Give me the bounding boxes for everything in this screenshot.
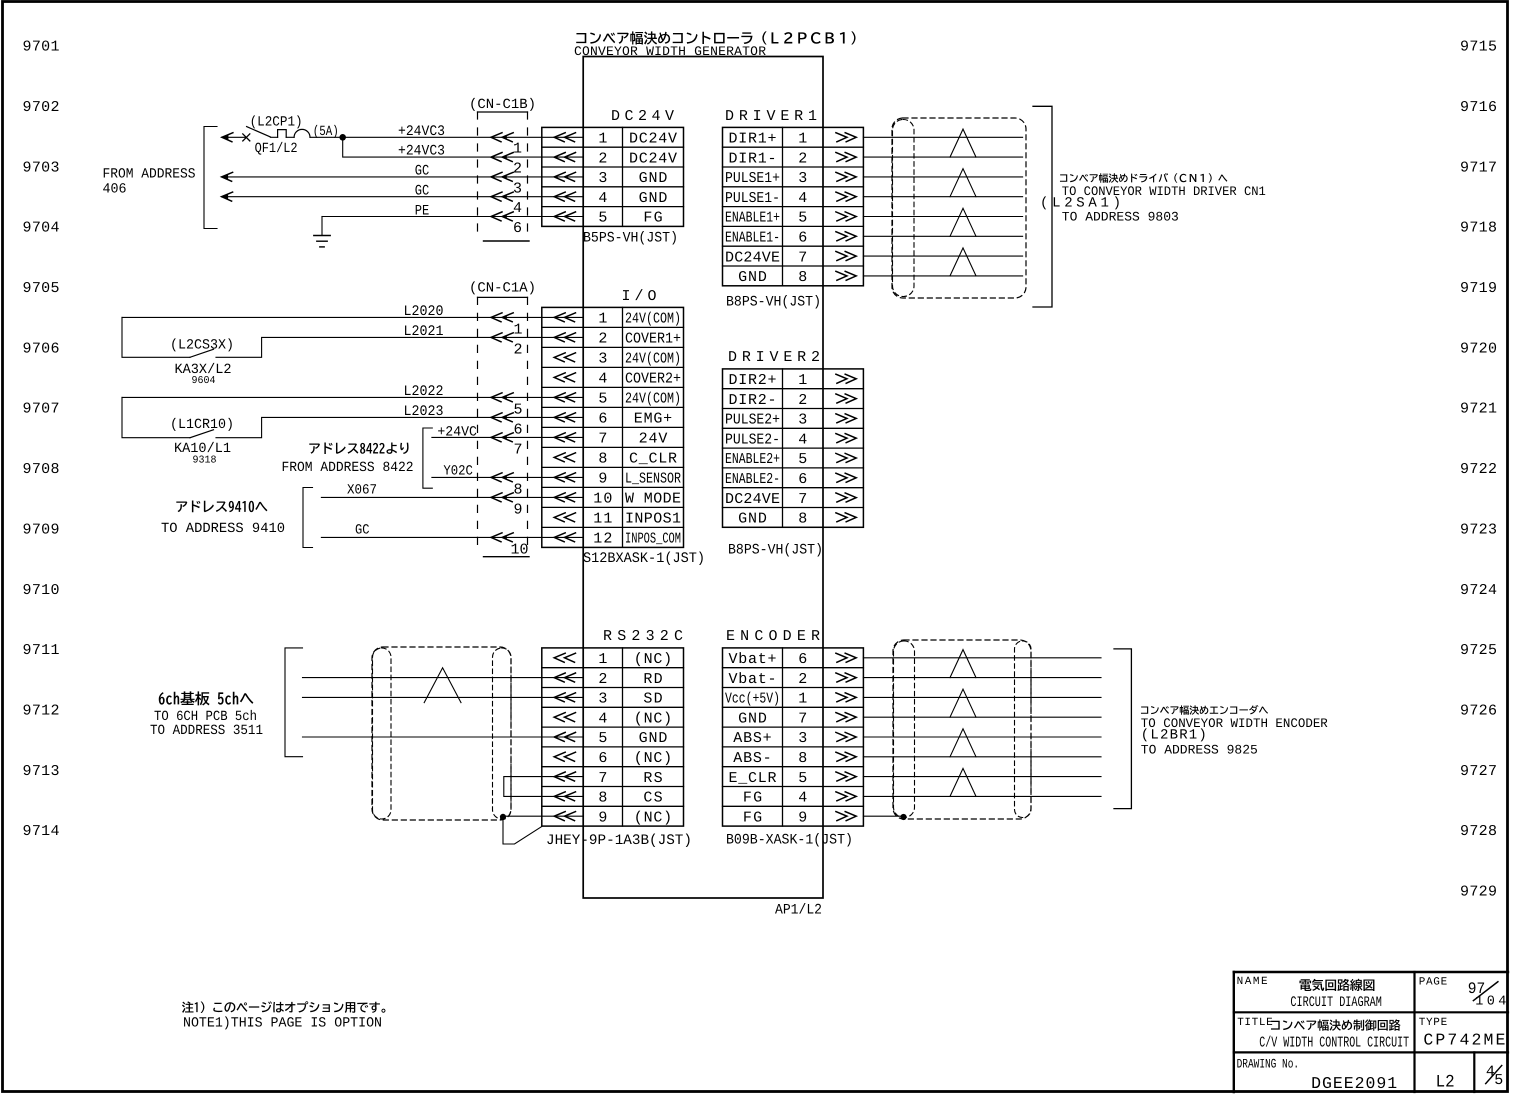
svg-text:GND: GND — [738, 269, 767, 286]
svg-text:GC: GC — [415, 163, 430, 179]
svg-text:7: 7 — [598, 770, 607, 787]
svg-text:Vbat-: Vbat- — [729, 671, 777, 688]
svg-text:ENABLE1+: ENABLE1+ — [725, 210, 780, 227]
svg-text:DC24VE: DC24VE — [725, 249, 780, 266]
svg-text:DIR2+: DIR2+ — [729, 372, 777, 389]
svg-text:2: 2 — [798, 392, 807, 409]
svg-text:L2023: L2023 — [404, 404, 444, 420]
svg-text:ABS-: ABS- — [733, 750, 771, 767]
svg-text:3: 3 — [798, 412, 807, 429]
svg-text:9705: 9705 — [23, 280, 60, 297]
svg-text:24V(COM): 24V(COM) — [625, 391, 681, 408]
svg-text:CIRCUIT DIAGRAM: CIRCUIT DIAGRAM — [1290, 995, 1382, 1011]
svg-text:AP1/L2: AP1/L2 — [775, 903, 822, 919]
svg-text:9: 9 — [598, 809, 607, 826]
svg-text:24V(COM): 24V(COM) — [625, 311, 681, 328]
svg-text:B8PS-VH(JST): B8PS-VH(JST) — [728, 543, 823, 559]
svg-text:PE: PE — [415, 203, 430, 219]
svg-text:9707: 9707 — [23, 401, 60, 418]
svg-text:TYPE: TYPE — [1419, 1017, 1448, 1029]
svg-text:3: 3 — [798, 170, 807, 187]
svg-text:9715: 9715 — [1460, 39, 1497, 56]
svg-text:5: 5 — [598, 391, 607, 408]
svg-text:9719: 9719 — [1460, 280, 1497, 297]
svg-text:2: 2 — [598, 331, 607, 348]
svg-text:9713: 9713 — [23, 763, 60, 780]
svg-text:406: 406 — [103, 182, 127, 198]
svg-text:9709: 9709 — [23, 521, 60, 538]
svg-text:JHEY-9P-1A3B(JST): JHEY-9P-1A3B(JST) — [546, 833, 692, 849]
svg-text:L2022: L2022 — [404, 384, 444, 400]
svg-text:4: 4 — [798, 431, 807, 448]
svg-text:7: 7 — [798, 491, 807, 508]
svg-text:+24VC3: +24VC3 — [398, 144, 445, 160]
svg-text:B5PS-VH(JST): B5PS-VH(JST) — [583, 231, 678, 247]
svg-text:FROM ADDRESS: FROM ADDRESS — [103, 166, 196, 182]
svg-text:3: 3 — [513, 180, 522, 197]
svg-text:5: 5 — [513, 401, 522, 418]
svg-text:L2021: L2021 — [404, 324, 444, 340]
svg-text:9703: 9703 — [23, 159, 60, 176]
svg-text:(CN-C1A): (CN-C1A) — [469, 281, 536, 297]
svg-text:ABS+: ABS+ — [733, 730, 771, 747]
svg-text:INPOS_COM: INPOS_COM — [625, 531, 681, 548]
svg-text:2: 2 — [598, 671, 607, 688]
svg-text:L2020: L2020 — [404, 304, 444, 320]
svg-text:CP742ME: CP742ME — [1423, 1031, 1505, 1050]
svg-text:CS: CS — [643, 790, 662, 807]
svg-text:2: 2 — [598, 150, 607, 167]
svg-text:PULSE2-: PULSE2- — [725, 431, 780, 448]
svg-text:9710: 9710 — [23, 582, 60, 599]
svg-text:PULSE2+: PULSE2+ — [725, 412, 780, 429]
svg-text:ENABLE2-: ENABLE2- — [725, 471, 780, 488]
svg-text:9706: 9706 — [23, 340, 60, 357]
svg-text:9721: 9721 — [1460, 401, 1497, 418]
svg-text:9604: 9604 — [192, 375, 216, 387]
svg-text:FG: FG — [743, 809, 762, 826]
svg-text:S12BXASK-1(JST): S12BXASK-1(JST) — [583, 551, 705, 567]
svg-text:COVER2+: COVER2+ — [625, 371, 681, 388]
svg-text:NOTE1)THIS PAGE IS OPTION: NOTE1)THIS PAGE IS OPTION — [183, 1016, 382, 1032]
svg-text:9729: 9729 — [1460, 884, 1497, 901]
svg-text:L_SENSOR: L_SENSOR — [625, 471, 681, 488]
svg-text:9720: 9720 — [1460, 340, 1497, 357]
svg-text:GC: GC — [355, 523, 370, 539]
svg-text:11: 11 — [593, 511, 612, 528]
svg-text:+24VC: +24VC — [437, 424, 477, 440]
svg-text:PULSE1-: PULSE1- — [725, 190, 780, 207]
svg-text:3: 3 — [598, 170, 607, 187]
svg-text:2: 2 — [798, 150, 807, 167]
svg-text:COVER1+: COVER1+ — [625, 331, 681, 348]
svg-text:GND: GND — [639, 170, 668, 187]
svg-text:2: 2 — [513, 341, 522, 358]
svg-text:5: 5 — [798, 210, 807, 227]
svg-text:12: 12 — [593, 531, 612, 548]
svg-text:9702: 9702 — [23, 99, 60, 116]
svg-text:X067: X067 — [347, 483, 377, 499]
svg-text:9723: 9723 — [1460, 521, 1497, 538]
svg-text:1: 1 — [798, 131, 807, 148]
svg-text:9701: 9701 — [23, 39, 60, 56]
svg-text:9727: 9727 — [1460, 763, 1497, 780]
svg-text:9318: 9318 — [193, 454, 217, 466]
svg-text:PULSE1+: PULSE1+ — [725, 170, 780, 187]
svg-text:2: 2 — [798, 671, 807, 688]
svg-text:C_CLR: C_CLR — [629, 451, 677, 468]
svg-text:1: 1 — [513, 321, 522, 338]
svg-text:(L2CP1): (L2CP1) — [250, 114, 303, 130]
svg-text:L2: L2 — [1436, 1072, 1455, 1092]
svg-text:ENABLE1-: ENABLE1- — [725, 230, 780, 247]
svg-text:GND: GND — [738, 511, 767, 528]
svg-text:9708: 9708 — [23, 461, 60, 478]
svg-text:6: 6 — [798, 230, 807, 247]
svg-text:TO ADDRESS 9410: TO ADDRESS 9410 — [161, 521, 285, 537]
svg-text:9711: 9711 — [23, 642, 60, 659]
svg-text:24V: 24V — [639, 431, 668, 448]
svg-text:4: 4 — [513, 200, 522, 217]
svg-text:9716: 9716 — [1460, 99, 1497, 116]
svg-text:+24VC3: +24VC3 — [398, 124, 445, 140]
svg-text:4: 4 — [598, 371, 607, 388]
svg-text:(NC): (NC) — [634, 651, 672, 668]
svg-text:C/V WIDTH CONTROL CIRCUIT: C/V WIDTH CONTROL CIRCUIT — [1259, 1035, 1409, 1052]
svg-text:1: 1 — [598, 651, 607, 668]
svg-text:Vcc(+5V): Vcc(+5V) — [725, 691, 780, 708]
svg-text:DC24V: DC24V — [629, 131, 677, 148]
svg-text:10: 10 — [593, 491, 612, 508]
svg-text:(CN-C1B): (CN-C1B) — [469, 97, 536, 113]
svg-text:FG: FG — [643, 210, 662, 227]
svg-text:(5A): (5A) — [313, 124, 339, 140]
svg-text:TO ADDRESS 3511: TO ADDRESS 3511 — [150, 723, 263, 739]
svg-text:7: 7 — [798, 710, 807, 727]
svg-text:7: 7 — [598, 431, 607, 448]
svg-text:9725: 9725 — [1460, 642, 1497, 659]
svg-text:(L2BR1): (L2BR1) — [1141, 728, 1207, 744]
svg-text:5: 5 — [798, 451, 807, 468]
svg-text:(L2CS3X): (L2CS3X) — [170, 337, 234, 353]
svg-text:GND: GND — [639, 190, 668, 207]
svg-text:8: 8 — [598, 790, 607, 807]
svg-text:8: 8 — [798, 269, 807, 286]
svg-text:DRAWING No.: DRAWING No. — [1237, 1056, 1300, 1071]
svg-text:5: 5 — [1494, 1072, 1503, 1089]
svg-text:SD: SD — [643, 691, 662, 708]
svg-text:Y02C: Y02C — [443, 464, 473, 480]
svg-text:9726: 9726 — [1460, 702, 1497, 719]
svg-text:RS: RS — [643, 770, 662, 787]
svg-text:PAGE: PAGE — [1419, 977, 1448, 989]
svg-text:QF1/L2: QF1/L2 — [255, 141, 298, 157]
svg-text:2: 2 — [513, 161, 522, 178]
svg-text:DIR1+: DIR1+ — [729, 131, 777, 148]
svg-text:TITLE: TITLE — [1237, 1017, 1273, 1029]
svg-text:(NC): (NC) — [634, 750, 672, 767]
svg-text:7: 7 — [513, 441, 522, 458]
svg-text:DC24V: DC24V — [629, 150, 677, 167]
svg-text:B8PS-VH(JST): B8PS-VH(JST) — [726, 295, 821, 311]
svg-text:1: 1 — [513, 141, 522, 158]
svg-text:9712: 9712 — [23, 702, 60, 719]
svg-text:INPOS1: INPOS1 — [625, 511, 681, 528]
svg-text:(NC): (NC) — [634, 809, 672, 826]
svg-text:8: 8 — [798, 750, 807, 767]
svg-text:4: 4 — [798, 190, 807, 207]
svg-text:24V(COM): 24V(COM) — [625, 351, 681, 368]
svg-text:5: 5 — [798, 770, 807, 787]
svg-text:104: 104 — [1475, 994, 1506, 1009]
svg-text:9728: 9728 — [1460, 823, 1497, 840]
svg-text:Vbat+: Vbat+ — [729, 651, 777, 668]
svg-text:9722: 9722 — [1460, 461, 1497, 478]
svg-text:6: 6 — [798, 651, 807, 668]
svg-text:GND: GND — [738, 710, 767, 727]
svg-text:9724: 9724 — [1460, 582, 1497, 599]
svg-text:6: 6 — [598, 411, 607, 428]
svg-text:5: 5 — [598, 730, 607, 747]
svg-text:B09B-XASK-1(JST): B09B-XASK-1(JST) — [726, 833, 853, 849]
svg-text:I/O: I/O — [622, 288, 657, 305]
svg-text:9: 9 — [513, 501, 522, 518]
svg-text:1: 1 — [598, 131, 607, 148]
svg-text:8: 8 — [598, 451, 607, 468]
svg-text:FG: FG — [743, 790, 762, 807]
svg-text:(NC): (NC) — [634, 710, 672, 727]
svg-text:ENABLE2+: ENABLE2+ — [725, 451, 780, 468]
svg-text:6: 6 — [513, 421, 522, 438]
svg-text:9714: 9714 — [23, 823, 60, 840]
svg-text:3: 3 — [798, 730, 807, 747]
svg-text:DIR1-: DIR1- — [729, 150, 777, 167]
svg-text:(L1CR10): (L1CR10) — [170, 417, 234, 433]
svg-text:1: 1 — [598, 311, 607, 328]
svg-text:1: 1 — [798, 691, 807, 708]
svg-text:5: 5 — [598, 210, 607, 227]
svg-text:GND: GND — [639, 730, 668, 747]
svg-text:10: 10 — [510, 541, 528, 558]
svg-text:RD: RD — [643, 671, 662, 688]
svg-text:6: 6 — [598, 750, 607, 767]
svg-text:1: 1 — [798, 372, 807, 389]
svg-text:6: 6 — [513, 220, 522, 237]
svg-text:7: 7 — [798, 249, 807, 266]
svg-text:9718: 9718 — [1460, 220, 1497, 237]
svg-text:4: 4 — [598, 190, 607, 207]
svg-text:NAME: NAME — [1237, 976, 1268, 988]
svg-text:9704: 9704 — [23, 220, 60, 237]
svg-text:4: 4 — [798, 790, 807, 807]
svg-text:EMG+: EMG+ — [634, 411, 672, 428]
svg-text:DC24VE: DC24VE — [725, 491, 780, 508]
svg-text:DGEE2091: DGEE2091 — [1311, 1074, 1397, 1093]
svg-text:9717: 9717 — [1460, 159, 1497, 176]
svg-text:8: 8 — [798, 511, 807, 528]
svg-text:4: 4 — [598, 710, 607, 727]
svg-text:FROM ADDRESS 8422: FROM ADDRESS 8422 — [282, 460, 414, 476]
svg-text:3: 3 — [598, 351, 607, 368]
svg-text:9: 9 — [598, 471, 607, 488]
svg-text:E_CLR: E_CLR — [729, 770, 777, 787]
svg-text:GC: GC — [415, 184, 430, 200]
svg-text:6: 6 — [798, 471, 807, 488]
svg-text:3: 3 — [598, 691, 607, 708]
svg-text:TO ADDRESS 9803: TO ADDRESS 9803 — [1062, 210, 1179, 225]
svg-text:DIR2-: DIR2- — [729, 392, 777, 409]
svg-text:W MODE: W MODE — [625, 491, 681, 508]
svg-text:TO ADDRESS 9825: TO ADDRESS 9825 — [1141, 743, 1258, 758]
svg-text:8: 8 — [513, 481, 522, 498]
svg-text:9: 9 — [798, 809, 807, 826]
